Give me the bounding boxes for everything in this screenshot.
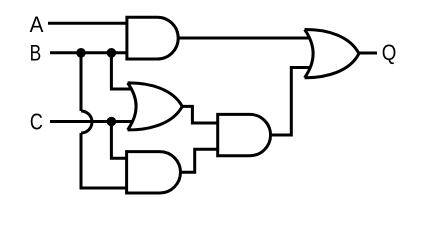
svg-text:C: C xyxy=(30,108,43,134)
wire OR1 output to AND2 upper input xyxy=(182,106,218,123)
wire input B to AND1 xyxy=(50,51,128,54)
svg-text:A: A xyxy=(30,12,44,37)
svg-text:B: B xyxy=(30,41,42,66)
wire B1 down upper segment xyxy=(80,53,83,111)
svg-text:Q: Q xyxy=(382,40,397,65)
node junction B1 xyxy=(76,48,86,58)
wire AND3 output to AND2 lower input xyxy=(181,149,218,172)
and-gate AND3 xyxy=(127,152,181,193)
wire B1 down lower segment to AND3 lower input xyxy=(81,133,127,188)
wire OR2 output to Q xyxy=(359,52,377,55)
wire input A to AND1 xyxy=(48,22,128,25)
or-gate OR1 xyxy=(128,83,183,130)
node junction B2 xyxy=(107,48,117,58)
or-gate OR2 xyxy=(305,29,359,77)
wire AND1 output to OR2 upper input xyxy=(178,37,309,40)
wire hop over C xyxy=(81,111,92,133)
wire AND2 output to OR2 lower input xyxy=(271,68,310,136)
and-gate AND2 xyxy=(218,114,271,155)
and-gate AND1 xyxy=(127,17,178,59)
wire C1 down to AND3 upper input xyxy=(111,122,126,159)
wire input C to OR1 lower input xyxy=(50,120,133,123)
node junction C1 xyxy=(107,117,117,127)
wire B2 down to OR1 upper input xyxy=(111,53,130,89)
